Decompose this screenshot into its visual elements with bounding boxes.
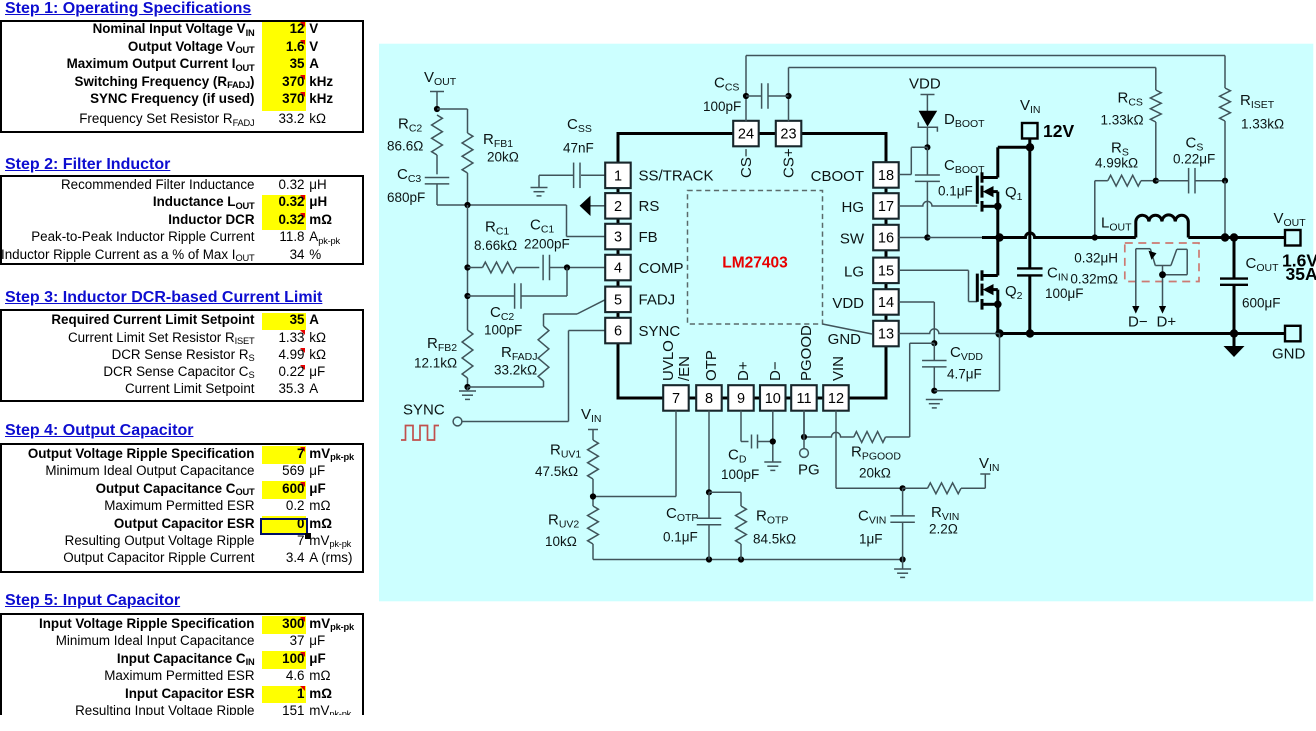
- remote sense arrow at pin RS: [590, 205, 606, 207]
- node SW wire from pin 16: [899, 237, 928, 239]
- resistor RUV1: [588, 440, 599, 479]
- svg-text:47.5kΩ: 47.5kΩ: [535, 464, 578, 479]
- svg-text:1.33kΩ: 1.33kΩ: [1241, 117, 1284, 132]
- pin 17 HG: [873, 193, 899, 219]
- svg-text:15: 15: [878, 264, 894, 280]
- ground at CD: [764, 461, 781, 463]
- wire pin 14 VDD: [899, 301, 935, 303]
- wire pin 9 D+: [740, 411, 742, 442]
- dashed pad tie to pin 13: [823, 324, 873, 334]
- svg-text:11: 11: [796, 391, 811, 407]
- pin 13 GND: [873, 321, 899, 347]
- wire RISET/CS junction down to VOUT: [1222, 178, 1228, 184]
- node PG output: [803, 411, 805, 438]
- svg-text:/EN: /EN: [676, 356, 693, 381]
- svg-text:PG: PG: [798, 462, 820, 479]
- wire RS to SW node: [1094, 181, 1096, 238]
- svg-text:35A: 35A: [1286, 264, 1316, 284]
- svg-text:100μF: 100μF: [1045, 286, 1084, 301]
- svg-text:VIN: VIN: [830, 356, 847, 381]
- svg-text:CS+: CS+: [780, 148, 797, 178]
- wire HG to Q1 gate: [899, 201, 978, 206]
- svg-text:16: 16: [878, 231, 894, 247]
- capacitor CC1: [542, 255, 544, 281]
- pin 24 CS-: [733, 121, 759, 147]
- node FB wire: [437, 204, 567, 206]
- ground arrow symbol: [1233, 334, 1236, 347]
- resistor RVIN: [903, 487, 928, 489]
- svg-text:VDD: VDD: [909, 76, 941, 93]
- pin 12: [823, 385, 849, 411]
- pin 11: [791, 385, 817, 411]
- svg-text:17: 17: [878, 199, 894, 215]
- ground at CVDD: [926, 399, 943, 401]
- svg-text:LG: LG: [844, 263, 864, 280]
- wire pin 12 VIN sense: [835, 411, 837, 489]
- pin 18 CBOOT: [873, 162, 899, 188]
- svg-text:FB: FB: [639, 229, 658, 246]
- resistor RUV2: [588, 506, 599, 544]
- wire pin 13 GND to rail: [899, 329, 1000, 334]
- svg-text:2.2Ω: 2.2Ω: [929, 522, 958, 537]
- thermistor sense dashed box: [1125, 243, 1199, 282]
- pin 14 VDD: [873, 289, 899, 315]
- wire CS+ to RCS: [788, 68, 790, 122]
- svg-text:84.5kΩ: 84.5kΩ: [753, 532, 796, 547]
- svg-text:0.1μF: 0.1μF: [938, 184, 973, 199]
- SW power rail with hop over VIN: [982, 233, 1136, 238]
- svg-text:2: 2: [614, 199, 622, 215]
- pin 5 FADJ: [605, 287, 631, 313]
- svg-text:10kΩ: 10kΩ: [545, 534, 577, 549]
- pin 15 LG: [873, 258, 899, 284]
- resistor RFB2: [462, 330, 473, 378]
- ground at RFB2: [464, 384, 470, 390]
- lead D+ arrow: [1159, 306, 1166, 314]
- wire FADJ to RFADJ: [577, 300, 605, 314]
- svg-text:LM27403: LM27403: [722, 255, 788, 272]
- feedback rail wire: [467, 205, 469, 330]
- resistor RC2: [432, 115, 443, 155]
- resistor ROTP: [709, 491, 741, 493]
- svg-text:SYNC: SYNC: [403, 402, 445, 419]
- temp sensor glyph: [1135, 249, 1137, 307]
- svg-text:0.32μH: 0.32μH: [1074, 251, 1118, 266]
- resistor RS: [1095, 180, 1108, 182]
- svg-text:0.1μF: 0.1μF: [663, 530, 698, 545]
- capacitor CVDD: [933, 343, 935, 360]
- svg-text:4.7μF: 4.7μF: [947, 367, 982, 382]
- svg-text:20kΩ: 20kΩ: [859, 466, 891, 481]
- inductor LOUT: [1136, 215, 1189, 238]
- ground at bottom bus: [902, 560, 904, 570]
- svg-text:18: 18: [878, 168, 894, 184]
- svg-text:D−: D−: [1128, 314, 1148, 331]
- resistor RC1: [464, 264, 470, 270]
- svg-text:12.1kΩ: 12.1kΩ: [414, 356, 457, 371]
- svg-text:1μF: 1μF: [859, 532, 883, 547]
- pin 2 RS: [605, 193, 631, 219]
- svg-text:680pF: 680pF: [387, 190, 425, 205]
- resistor RPGOOD pull-up wire: [910, 342, 935, 344]
- VIN rail wire: [1028, 139, 1031, 269]
- pin 23 CS+: [776, 121, 802, 147]
- SYNC square wave symbol: [401, 426, 439, 441]
- resistor RFADJ: [538, 326, 549, 381]
- wire CS- to RISET: [745, 56, 747, 122]
- svg-text:100pF: 100pF: [703, 99, 741, 114]
- pin 10: [760, 385, 786, 411]
- svg-text:4: 4: [614, 261, 622, 277]
- svg-text:PGOOD: PGOOD: [798, 325, 815, 381]
- svg-text:GND: GND: [1272, 346, 1306, 363]
- svg-text:OTP: OTP: [703, 350, 720, 381]
- lead D- arrow: [1132, 306, 1139, 314]
- capacitor CVIN: [902, 488, 904, 516]
- svg-text:86.6Ω: 86.6Ω: [387, 139, 423, 154]
- pin 16 SW: [873, 225, 899, 251]
- capacitor COTP: [708, 492, 710, 518]
- svg-text:23: 23: [780, 127, 796, 143]
- svg-text:D−: D−: [767, 361, 784, 381]
- svg-text:5: 5: [614, 293, 622, 309]
- ground at CSS: [531, 187, 548, 189]
- wire pin 11 PGOOD: [803, 411, 805, 438]
- svg-text:D+: D+: [735, 361, 752, 381]
- capacitor CC2: [464, 293, 470, 299]
- diode DBOOT: [919, 111, 938, 127]
- capacitor CS: [1153, 178, 1159, 184]
- transistor Q1: [976, 176, 979, 204]
- svg-text:8.66kΩ: 8.66kΩ: [474, 238, 517, 253]
- capacitor CD: [751, 435, 753, 449]
- pin 8: [696, 385, 722, 411]
- svg-text:12V: 12V: [1043, 121, 1074, 141]
- svg-text:3: 3: [614, 230, 622, 246]
- svg-text:33.2kΩ: 33.2kΩ: [494, 363, 537, 378]
- svg-text:4.99kΩ: 4.99kΩ: [1095, 156, 1138, 171]
- op-amp U1 LM27403 body outline: [618, 134, 886, 399]
- wire LG to Q2 gate: [899, 269, 969, 271]
- resistor RISET: [1220, 88, 1231, 121]
- wire DBOOT to pin18 CBOOT: [924, 144, 930, 150]
- svg-text:GND: GND: [828, 331, 862, 348]
- svg-text:20kΩ: 20kΩ: [487, 150, 519, 165]
- svg-text:0.32mΩ: 0.32mΩ: [1070, 272, 1118, 287]
- svg-text:7: 7: [672, 391, 680, 407]
- svg-text:10: 10: [765, 391, 781, 407]
- capacitor CC3: [436, 155, 438, 174]
- svg-text:2200pF: 2200pF: [524, 237, 570, 252]
- pin 4 COMP: [605, 255, 631, 280]
- transistor Q2: [976, 274, 979, 302]
- svg-text:RS: RS: [639, 198, 660, 215]
- capacitor CIN: [1017, 267, 1043, 269]
- svg-text:VDD: VDD: [832, 295, 864, 312]
- svg-text:HG: HG: [842, 199, 865, 216]
- node divider junction: [590, 493, 596, 499]
- svg-text:100pF: 100pF: [721, 467, 759, 482]
- svg-text:SYNC: SYNC: [639, 323, 681, 340]
- node GND terminal: [1285, 326, 1301, 342]
- svg-text:8: 8: [705, 391, 713, 407]
- svg-text:6: 6: [614, 324, 622, 340]
- capacitor CSS: [581, 174, 606, 176]
- pin 1 SS/TRACK: [605, 163, 631, 189]
- svg-text:100pF: 100pF: [484, 323, 522, 338]
- svg-text:SS/TRACK: SS/TRACK: [639, 168, 714, 185]
- pin 6 SYNC: [605, 318, 631, 344]
- ground power rail: [1000, 332, 1286, 335]
- pin 7: [663, 385, 689, 411]
- wire pin 10 D-: [772, 411, 774, 463]
- LM27403 dashed inner box: [688, 191, 823, 325]
- node SYNC input: [569, 330, 606, 332]
- svg-text:COMP: COMP: [639, 260, 684, 277]
- svg-text:FADJ: FADJ: [639, 292, 676, 309]
- svg-text:13: 13: [878, 327, 894, 343]
- svg-text:9: 9: [737, 391, 745, 407]
- svg-text:14: 14: [878, 295, 894, 311]
- svg-text:CBOOT: CBOOT: [811, 168, 864, 185]
- capacitor CCS: [743, 93, 749, 99]
- svg-text:1: 1: [614, 169, 622, 185]
- svg-text:1.33kΩ: 1.33kΩ: [1101, 113, 1144, 128]
- svg-text:12: 12: [828, 391, 844, 407]
- svg-text:D+: D+: [1157, 314, 1177, 331]
- svg-text:600μF: 600μF: [1242, 296, 1281, 311]
- wire: [437, 108, 468, 110]
- node VIN tap: [984, 474, 986, 488]
- svg-text:47nF: 47nF: [563, 141, 594, 156]
- svg-text:UVLO: UVLO: [660, 340, 677, 381]
- cyan schematic background: [379, 44, 1313, 602]
- wire pin 7 UVLO to divider: [675, 411, 677, 497]
- svg-text:SW: SW: [840, 231, 865, 248]
- pin 3 FB: [605, 224, 631, 250]
- resistor RFB1: [467, 109, 469, 133]
- pin 9: [728, 385, 754, 411]
- svg-text:24: 24: [738, 127, 754, 143]
- capacitor COUT: [1233, 238, 1236, 279]
- VOUT power rail: [1188, 236, 1285, 239]
- svg-text:0.22μF: 0.22μF: [1173, 152, 1215, 167]
- bottom ground bus: [593, 559, 903, 561]
- wire pin 8 OTP: [708, 411, 710, 493]
- svg-text:CS−: CS−: [738, 148, 755, 178]
- resistor RCS: [1150, 90, 1161, 122]
- CVDD return wire: [934, 390, 999, 392]
- capacitor CBOOT: [926, 147, 928, 175]
